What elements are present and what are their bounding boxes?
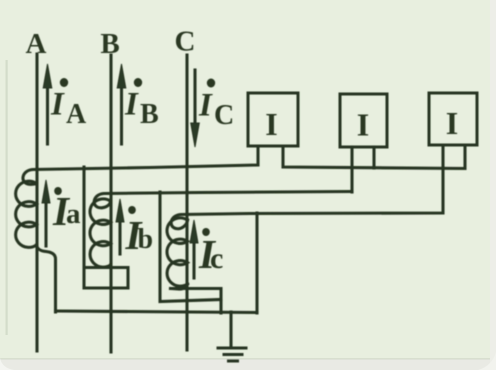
svg-text:B: B [140,99,159,130]
label dot of Ic [202,228,210,236]
scan edge artifact right strip [490,0,496,370]
svg-text:A: A [26,28,47,60]
wire: P1 left lead and W1 to CT-a top, with left elbow [23,146,258,184]
svg-text:I: I [124,87,139,123]
arrow current Ic in CT c [190,220,198,278]
wire: tap from W3 down to neutral bus [255,213,258,313]
CT b secondary winding (3 bumps) [90,199,111,267]
ammeter P3 box [429,93,477,145]
wire: CT-c k end curl [171,284,188,289]
arrow current Ib in CT b [116,199,124,254]
arrow current IA [43,64,52,144]
wire: P2 right lead tap [372,147,375,168]
svg-text:I: I [265,106,277,142]
label dot of Ia [54,187,62,195]
svg-text:I: I [357,107,369,143]
wire: P1 right lead, common return to P3 right lead [283,145,465,169]
svg-text:I: I [198,88,213,124]
svg-text:c: c [210,242,223,275]
ground symbol [218,348,246,361]
wire: CT-b k end curl [103,265,111,268]
arrow current Ia in CT a [42,180,50,246]
CT c secondary winding (3 bumps) [167,218,188,286]
wire: P3 left lead and W3 to CT-c top, with left elbow [171,145,443,229]
wire: P2 left lead down through common [350,147,353,192]
wire: phase C conductor [185,55,188,350]
ammeter P1 box [248,93,298,146]
wire: neutral bus [56,311,258,313]
wire: ground stem [229,312,232,346]
svg-text:I: I [446,105,458,141]
wire: CT-c hook horizontal to bus drop [171,289,222,314]
wire: CT-b hook rectangle tapped from W1 [84,167,128,288]
CT a secondary winding (3 bumps) [16,181,37,247]
svg-text:C: C [175,26,196,58]
wire: W2 from P2 left lead to CT-b top, with left elbow [94,192,352,208]
scan edge artifact left [6,60,8,335]
label dot of IC [207,79,215,88]
wire: CT-a k end elbow down to neutral bus [37,245,56,312]
svg-text:A: A [66,99,87,130]
label dot of IA [60,78,68,87]
arrow current IC (downward) [191,70,200,147]
scan edge artifact bottom strip [0,359,496,370]
ammeter P2 box [340,94,387,147]
svg-text:C: C [214,100,234,131]
svg-text:a: a [66,198,81,230]
label dot of Ib [128,206,136,214]
svg-text:B: B [100,28,119,60]
svg-text:b: b [138,224,154,255]
label dot of IB [134,78,142,87]
wire: phase A conductor [35,54,38,351]
wire: tap from W2 down and over to bus drop [160,192,221,302]
wire: phase B conductor [109,55,112,352]
svg-text:I: I [50,87,65,123]
arrow current IB [117,64,126,144]
